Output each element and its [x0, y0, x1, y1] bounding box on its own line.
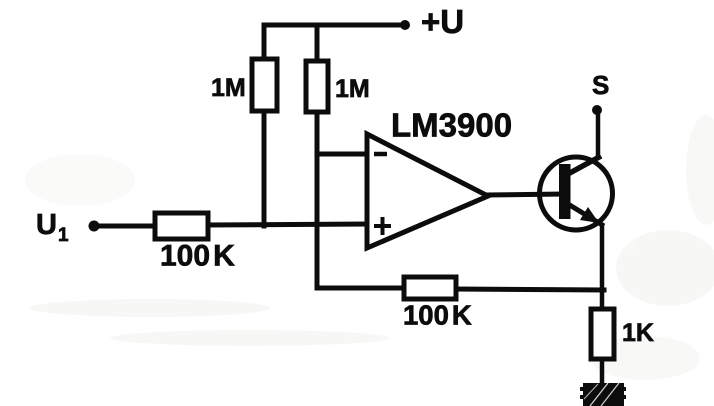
resistor R2 1M (right) — [306, 61, 328, 112]
wire: 1K to ground — [600, 358, 605, 385]
wire: right 1M top lead — [315, 25, 320, 63]
svg-text:U: U — [36, 209, 57, 241]
wire: collector to S terminal — [596, 112, 601, 157]
svg-text:1M: 1M — [211, 74, 246, 102]
wire: left 1M top lead — [262, 25, 267, 61]
node: S output terminal dot — [592, 105, 602, 115]
op-amp U1 LM3900 triangle — [367, 134, 488, 248]
resistor R1 1M (left) — [252, 59, 277, 111]
svg-text:1K: 1K — [622, 319, 654, 347]
wire: inverting input branch — [317, 152, 366, 157]
wire: 100K to non-inverting input — [206, 224, 366, 225]
resistor R4 100K (feedback) — [404, 277, 456, 299]
svg-text:1M: 1M — [335, 75, 370, 103]
op-amp inverting input symbol — [374, 152, 387, 157]
op-amp non-inverting input symbol — [374, 217, 391, 235]
wire: right 1M bottom lead down to feedback corner — [315, 111, 320, 288]
node: U1 input terminal dot — [89, 221, 100, 232]
transistor Q1 body circle — [540, 157, 613, 230]
wire: feedback bottom run left of resistor — [317, 286, 405, 291]
resistor R5 1K (emitter) — [591, 309, 614, 359]
svg-text:100K: 100K — [403, 300, 472, 331]
ground symbol — [580, 383, 626, 406]
svg-text:+U: +U — [421, 3, 464, 40]
svg-text:100K: 100K — [160, 240, 235, 273]
wire: feedback bottom run right of resistor — [454, 289, 604, 290]
transistor Q1 base bar — [559, 164, 571, 219]
svg-text:1: 1 — [58, 225, 69, 246]
wire: emitter down to 1K — [600, 227, 605, 310]
node: +U terminal dot — [400, 20, 410, 30]
transistor Q1 emitter stroke with arrow — [568, 204, 604, 226]
svg-text:LM3900: LM3900 — [391, 107, 512, 144]
wire: op-amp output to transistor base — [486, 194, 562, 195]
resistor R3 100K (input) — [155, 213, 208, 239]
transistor Q1 collector stroke — [568, 156, 601, 174]
wire: +U supply rail — [264, 23, 404, 28]
wire: U1 input to 100K — [95, 224, 156, 229]
svg-text:S: S — [592, 70, 609, 100]
wire: left 1M bottom lead down to input line — [262, 110, 267, 226]
